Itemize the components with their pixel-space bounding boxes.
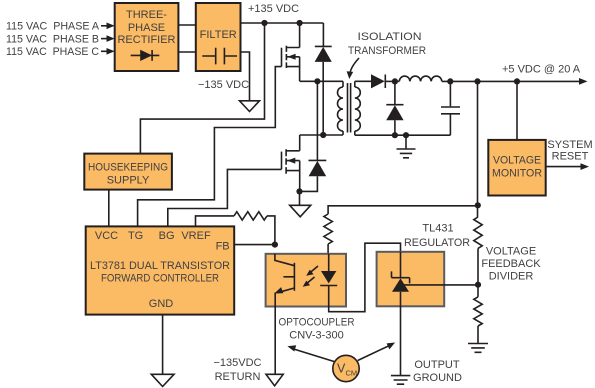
svg-text:RESET: RESET bbox=[552, 150, 589, 162]
arrow VCM to opto emitter bbox=[287, 345, 334, 361]
wire resistor to opto anode bbox=[327, 244, 329, 254]
svg-text:HOUSEKEEPING: HOUSEKEEPING bbox=[88, 161, 168, 173]
label isolation transformer bbox=[348, 31, 426, 57]
svg-text:TRANSFORMER: TRANSFORMER bbox=[348, 45, 426, 57]
label output ground bbox=[413, 359, 462, 384]
node dot rail to Q1 drain bbox=[297, 20, 303, 26]
node dot divider midpoint bbox=[475, 282, 481, 288]
wire -135 VDC drop from filter bbox=[241, 52, 250, 100]
svg-text:FORWARD CONTROLLER: FORWARD CONTROLLER bbox=[101, 272, 219, 284]
wire rectifier-filter upper link bbox=[178, 24, 195, 26]
wire phase C arrow bbox=[101, 48, 115, 55]
diode D2 lower clamp bbox=[300, 81, 327, 191]
ground TL431 anode output ground bbox=[391, 376, 410, 385]
wire +135 VDC rail bbox=[241, 22, 324, 24]
label 115 VAC PHASE A bbox=[6, 21, 100, 33]
svg-text:TG: TG bbox=[128, 230, 143, 242]
node VCM circle bbox=[333, 355, 359, 381]
svg-text:115 VAC PHASE C: 115 VAC PHASE C bbox=[6, 46, 99, 58]
node dot rail to housekeeping feed bbox=[261, 20, 267, 26]
phototransistor in optocoupler bbox=[274, 254, 294, 307]
svg-text:VOLTAGE: VOLTAGE bbox=[493, 154, 541, 166]
diode D4 catch bbox=[386, 81, 403, 135]
transformer T1 primary winding bbox=[338, 81, 343, 135]
svg-text:SYSTEM: SYSTEM bbox=[547, 139, 592, 151]
wire primary top rail bbox=[300, 80, 343, 82]
wire resistor to FB node bbox=[267, 216, 275, 245]
wire primary bottom rail bbox=[300, 134, 343, 136]
LED in optocoupler bbox=[320, 254, 337, 307]
label voltage feedback divider bbox=[481, 246, 541, 283]
label 115 VAC PHASE B bbox=[6, 33, 99, 45]
block TL431 bbox=[377, 252, 445, 306]
label system reset bbox=[547, 139, 592, 162]
label TL431 regulator bbox=[404, 223, 470, 250]
wire system reset arrow bbox=[546, 163, 589, 170]
diode symbol inside rectifier bbox=[131, 50, 160, 61]
block three-phase rectifier bbox=[115, 3, 179, 71]
svg-text:DIVIDER: DIVIDER bbox=[489, 271, 534, 283]
svg-text:+135 VDC: +135 VDC bbox=[248, 3, 299, 15]
svg-text:+5 VDC @ 20 A: +5 VDC @ 20 A bbox=[502, 64, 581, 76]
svg-text:GROUND: GROUND bbox=[413, 372, 462, 384]
node dot primary top bbox=[314, 78, 320, 84]
node dot primary bottom D1 anode bbox=[320, 132, 326, 138]
svg-text:THREE-: THREE- bbox=[126, 9, 167, 21]
label -135 VDC bbox=[198, 79, 249, 91]
wire housekeeping to VCC bbox=[108, 190, 110, 227]
wire phase B arrow bbox=[101, 35, 115, 42]
svg-text:OUTPUT: OUTPUT bbox=[414, 359, 460, 371]
label +5 VDC @ 20 A bbox=[502, 64, 581, 76]
block voltage monitor bbox=[488, 140, 545, 196]
transformer T1 core bbox=[348, 83, 351, 133]
ground LT3781 GND triangle bbox=[151, 374, 174, 386]
svg-text:−135 VDC: −135 VDC bbox=[198, 79, 249, 91]
block filter bbox=[196, 3, 241, 71]
arrow isolation transformer pointer bbox=[347, 58, 359, 79]
resistor VREF pull-up bbox=[234, 212, 267, 220]
resistor divider lower bbox=[474, 297, 482, 326]
label optocoupler bbox=[279, 317, 355, 342]
wire +135 to housekeeping supply bbox=[140, 23, 264, 154]
capacitor symbol inside filter bbox=[202, 48, 237, 65]
wire opto emitter to -135 return bbox=[274, 307, 276, 374]
wire divider middle bbox=[477, 248, 479, 297]
block LT3781 controller bbox=[86, 226, 235, 314]
wire secondary top to D3 bbox=[355, 80, 371, 82]
label -135VDC return bbox=[213, 357, 261, 383]
ground primary return triangle bbox=[290, 205, 311, 217]
svg-text:RECTIFIER: RECTIFIER bbox=[118, 34, 176, 46]
svg-text:VOLTAGE: VOLTAGE bbox=[486, 246, 536, 258]
svg-text:SUPPLY: SUPPLY bbox=[107, 174, 150, 186]
svg-text:115 VAC PHASE B: 115 VAC PHASE B bbox=[6, 33, 99, 45]
svg-text:ISOLATION: ISOLATION bbox=[358, 31, 422, 43]
svg-text:FEEDBACK: FEEDBACK bbox=[481, 258, 541, 270]
svg-text:PHASE: PHASE bbox=[128, 22, 165, 34]
wire sense line to LED resistor bbox=[328, 206, 478, 214]
svg-text:REGULATOR: REGULATOR bbox=[404, 237, 470, 249]
label 115 VAC PHASE C bbox=[6, 46, 99, 58]
TL431 shunt regulator symbol bbox=[392, 252, 478, 376]
capacitor C1 output bbox=[441, 81, 460, 135]
transformer T1 secondary winding bbox=[355, 81, 361, 135]
wire GND down bbox=[162, 315, 164, 374]
svg-text:GND: GND bbox=[149, 298, 174, 310]
svg-text:VCC: VCC bbox=[95, 230, 118, 242]
ground divider bbox=[468, 344, 488, 353]
node dot D3-D4 junction bbox=[392, 78, 398, 84]
svg-text:115 VAC PHASE A: 115 VAC PHASE A bbox=[6, 21, 100, 33]
wire monitor feed bbox=[516, 81, 518, 139]
node dot Q2 source bbox=[296, 188, 302, 194]
svg-text:LT3781 DUAL TRANSISTOR: LT3781 DUAL TRANSISTOR bbox=[90, 260, 230, 272]
diode D3 output rectifier bbox=[371, 74, 399, 88]
block optocoupler bbox=[266, 254, 346, 307]
transistor Q1 top MOSFET bbox=[282, 23, 300, 81]
wire BG to Q2 gate bbox=[168, 169, 282, 226]
wire FB pin bbox=[234, 244, 275, 246]
diode D1 upper clamp bbox=[315, 23, 332, 135]
light arrows in optocoupler bbox=[303, 266, 318, 287]
node dot rail ground tap bbox=[403, 132, 409, 138]
svg-text:FILTER: FILTER bbox=[200, 29, 237, 41]
svg-text:RETURN: RETURN bbox=[215, 371, 261, 383]
block housekeeping supply bbox=[84, 154, 172, 190]
svg-text:MONITOR: MONITOR bbox=[492, 168, 542, 180]
node dot monitor tap bbox=[514, 78, 520, 84]
resistor divider upper bbox=[474, 217, 482, 248]
node dot feedback tap bbox=[474, 78, 480, 84]
wire phase A arrow bbox=[101, 23, 115, 30]
wire VREF to resistor bbox=[196, 216, 235, 227]
node dot FB bbox=[272, 242, 278, 248]
node dot output cap bbox=[447, 78, 453, 84]
wire Q2 source to ground bbox=[299, 191, 301, 204]
transistor Q2 bottom MOSFET bbox=[282, 135, 300, 191]
node dot D4 anode on rail bbox=[392, 132, 398, 138]
svg-text:CNV-3-300: CNV-3-300 bbox=[289, 330, 343, 342]
svg-text:CM: CM bbox=[346, 369, 358, 378]
ground secondary rail bbox=[397, 135, 416, 158]
wire rectifier-filter lower link bbox=[178, 51, 195, 53]
wire feedback divider drop bbox=[477, 81, 479, 217]
svg-text:VREF: VREF bbox=[181, 230, 211, 242]
resistor opto LED feed bbox=[324, 214, 332, 244]
ground -135VDC return triangle bbox=[266, 374, 283, 386]
wire LED cathode to TL431 bbox=[329, 243, 401, 312]
svg-text:−135VDC: −135VDC bbox=[213, 357, 261, 369]
inductor L1 bbox=[399, 76, 442, 81]
ground -135 VDC return triangle bbox=[240, 101, 260, 112]
wire +5 output rail bbox=[442, 78, 588, 85]
wire secondary bottom rail bbox=[355, 134, 451, 136]
wire TG to Q1 gate bbox=[138, 67, 282, 227]
arrow VCM to output ground bbox=[358, 343, 395, 361]
node dot sense junction bbox=[475, 202, 481, 208]
svg-text:FB: FB bbox=[216, 240, 230, 252]
wire divider to ground bbox=[477, 326, 479, 343]
svg-text:TL431: TL431 bbox=[422, 223, 453, 235]
label +135 VDC bbox=[248, 3, 299, 15]
svg-text:BG: BG bbox=[159, 230, 175, 242]
svg-text:OPTOCOUPLER: OPTOCOUPLER bbox=[279, 317, 355, 329]
